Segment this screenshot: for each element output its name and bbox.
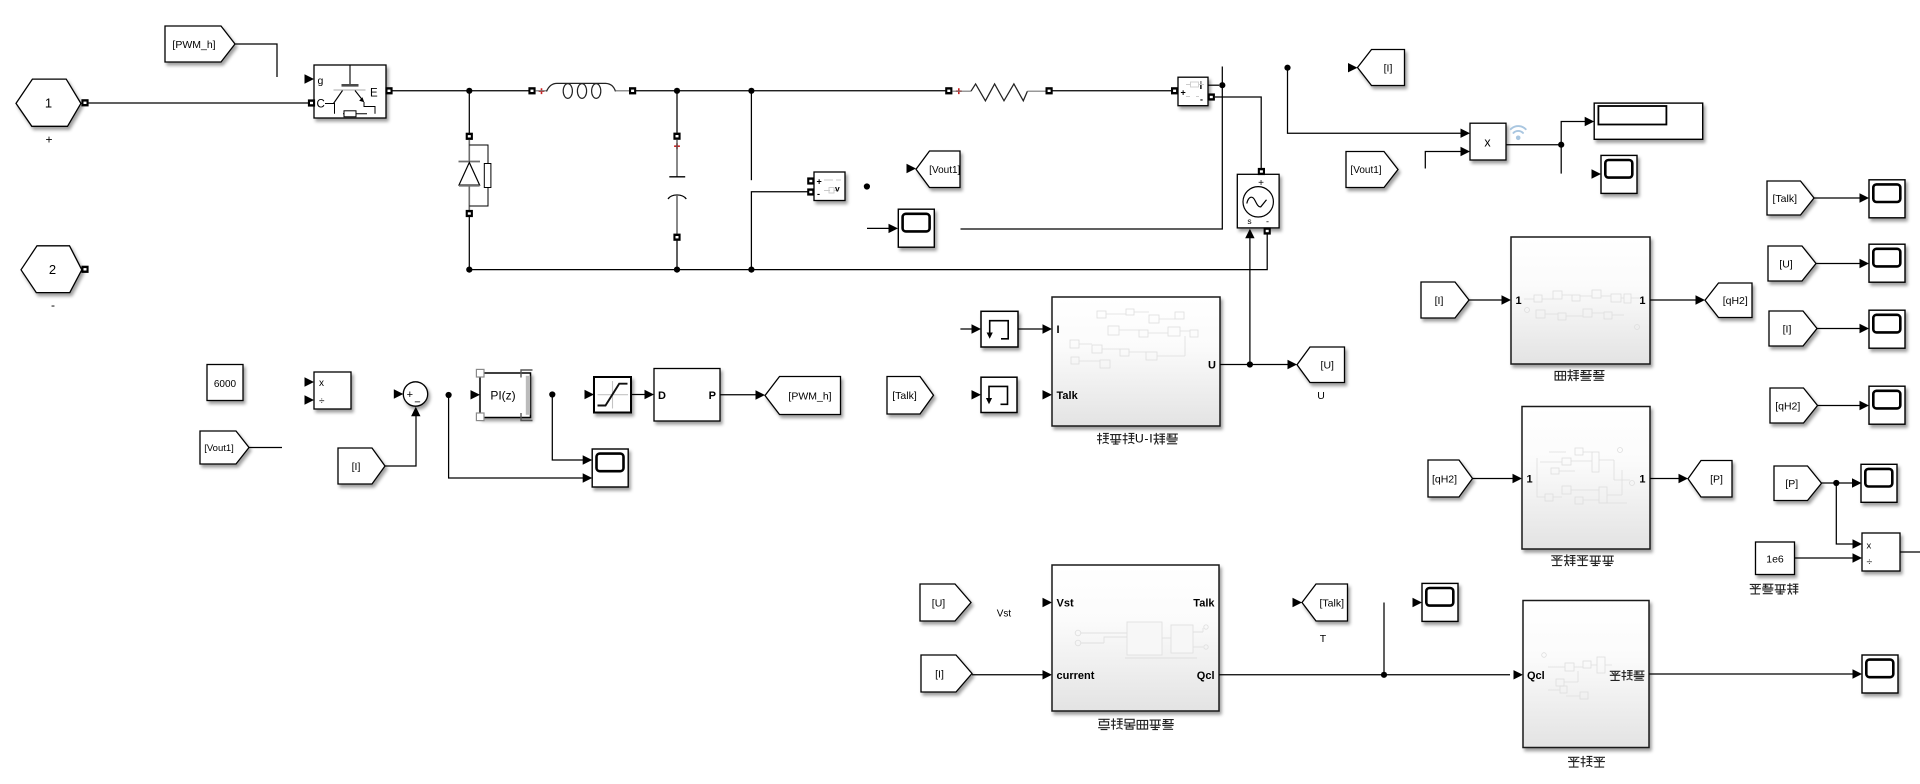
port 2 output pin — [81, 266, 88, 273]
svg-text:+: + — [1181, 88, 1186, 98]
svg-text:Talk: Talk — [1057, 390, 1079, 402]
divide block x / (pressure ratio) — [1862, 533, 1900, 571]
svg-text:1: 1 — [1516, 295, 1522, 307]
bottom rail — [469, 235, 1267, 270]
svg-text:6000: 6000 — [214, 379, 237, 390]
divider input 1 arrow — [1853, 539, 1863, 548]
svg-text:1: 1 — [1639, 295, 1645, 307]
sum input arrow — [394, 389, 404, 398]
svg-text:1: 1 — [1639, 474, 1645, 486]
node Qcl — [1381, 672, 1387, 678]
vm branch wiring — [750, 91, 752, 180]
svg-text:s: s — [1247, 216, 1251, 226]
product input 1 arrow — [1461, 129, 1471, 138]
sum bottom input arrow — [411, 407, 420, 417]
subsystem hydrogen production rate — [1511, 237, 1650, 364]
svg-text:current: current — [1057, 670, 1095, 682]
svg-text:v: v — [835, 184, 840, 194]
rate transition 2 input arrow — [972, 390, 982, 399]
input port 2 (-) — [21, 246, 82, 293]
P goto arrow — [1679, 474, 1689, 483]
wire i-signal long — [961, 67, 1223, 230]
display block — [1594, 103, 1703, 139]
wire [I] to scope — [1817, 328, 1860, 330]
label hydrogen production rate — [1555, 371, 1565, 380]
svg-text:i: i — [1200, 81, 1203, 92]
svg-text:[PWM_h]: [PWM_h] — [172, 39, 215, 51]
from tag [P] (monitor) — [1774, 466, 1822, 501]
display input arrow — [1585, 117, 1595, 126]
scope ctrl input 2 arrow — [583, 473, 593, 482]
svg-text:[PWM_h]: [PWM_h] — [788, 390, 831, 402]
label water thermal management — [1099, 719, 1110, 729]
svg-text:x: x — [1867, 541, 1872, 552]
from tag [Talk] (monitor) — [1767, 181, 1814, 215]
svg-text:[U]: [U] — [932, 597, 946, 609]
label electrolyzer — [1098, 433, 1109, 443]
heat tank Qcl input arrow — [1514, 670, 1524, 679]
svg-text:E: E — [370, 88, 378, 100]
electrolyzer Talk input arrow — [1043, 390, 1053, 399]
label H2 tank pressure — [1552, 556, 1562, 566]
svg-text:[Talk]: [Talk] — [1319, 597, 1344, 609]
svg-text:U: U — [1208, 360, 1216, 372]
h2rate input arrow — [1502, 295, 1512, 304]
svg-text:1e6: 1e6 — [1766, 554, 1784, 566]
svg-text:[qH2]: [qH2] — [1432, 473, 1457, 485]
from tag [U] (Vst) — [920, 584, 971, 621]
scope [I] — [1869, 310, 1905, 348]
source s input arrow — [1245, 229, 1254, 239]
wire i out to node — [1208, 84, 1219, 86]
wire Vout1 to product — [1425, 152, 1460, 169]
scope [P] — [1861, 464, 1897, 502]
controlled voltage source — [1237, 174, 1279, 228]
wire Vout1 stub — [249, 447, 282, 449]
saturation input arrow — [585, 390, 595, 399]
svg-text:[Vout1]: [Vout1] — [929, 165, 960, 176]
scope (product) — [1601, 155, 1637, 193]
PI(z) input arrow — [471, 390, 481, 399]
wire port1 to IGBT C — [89, 102, 310, 104]
water system inner sketch — [1075, 622, 1208, 658]
svg-text:[Vout1]: [Vout1] — [1350, 165, 1381, 176]
wire top rail resistor to current meas — [1052, 90, 1175, 92]
node sum out — [446, 392, 452, 398]
node branch to product — [1284, 65, 1290, 71]
scope (product) input arrow — [1592, 169, 1602, 178]
svg-text:I: I — [1057, 324, 1060, 336]
svg-text:Vst: Vst — [997, 609, 1012, 620]
PWM D input arrow — [645, 390, 655, 399]
gate input arrow — [305, 74, 315, 83]
water Vst input arrow — [1043, 598, 1053, 607]
scope [Talk] — [1869, 180, 1905, 218]
svg-text:[U]: [U] — [1321, 360, 1335, 372]
subsystem electrolyzer U-I curve — [1052, 297, 1220, 426]
node PI out — [549, 391, 555, 397]
node i signal — [1219, 82, 1225, 88]
svg-text:PI(z): PI(z) — [490, 389, 515, 403]
scope [qH2] — [1869, 386, 1905, 424]
saturation block — [594, 377, 631, 413]
svg-text:x: x — [1484, 136, 1491, 150]
svg-text:[I]: [I] — [935, 668, 944, 680]
wire [qH2] to scope — [1818, 405, 1861, 407]
wire divider out — [1900, 551, 1920, 553]
scope (T) input arrow — [1413, 598, 1423, 607]
svg-text:Qcl: Qcl — [1527, 670, 1545, 682]
node diode top — [466, 88, 472, 94]
svg-text:[I]: [I] — [1783, 323, 1792, 335]
wire minus to source top — [1215, 97, 1261, 169]
goto tag [qH2] — [1705, 283, 1752, 318]
node capacitor top — [674, 88, 680, 94]
svg-text:x: x — [319, 378, 324, 389]
inductor L — [528, 83, 636, 98]
node vm branch bottom — [748, 267, 754, 273]
product input 2 arrow — [1461, 147, 1471, 156]
svg-text:[qH2]: [qH2] — [1775, 400, 1800, 412]
sum block +- — [403, 382, 427, 406]
from tag [Talk] (to electrolyzer) — [887, 377, 934, 415]
port 1 output pin — [81, 99, 88, 106]
water current input arrow — [1043, 670, 1053, 679]
scope (heat) — [1862, 655, 1898, 693]
wire top rail inductor to resistor — [636, 90, 947, 92]
goto tag [U] — [1297, 347, 1345, 383]
scope [U] — [1869, 244, 1905, 282]
constant 1e6 — [1756, 542, 1795, 575]
wire sat to pwm — [631, 394, 645, 396]
svg-text:[P]: [P] — [1710, 474, 1723, 486]
voltage measurement block — [814, 172, 845, 201]
svg-text:-: - — [817, 189, 820, 199]
From tag [PWM_h] — [165, 26, 235, 62]
svg-text:[I]: [I] — [1384, 62, 1393, 74]
svg-text:−: − — [414, 396, 420, 408]
capacitor C — [668, 91, 686, 270]
svg-text:1: 1 — [45, 96, 52, 111]
scope (Vout) — [867, 227, 889, 229]
Vout1 goto arrow — [907, 164, 917, 173]
wire top rail E to inductor — [393, 90, 530, 92]
svg-text:C: C — [317, 99, 325, 111]
svg-text:1: 1 — [1527, 474, 1533, 486]
svg-text:+: + — [45, 133, 52, 147]
E output port — [385, 87, 392, 94]
divide input 2 arrow — [305, 395, 315, 404]
PWM generator block — [654, 369, 720, 422]
divider input 2 arrow — [1853, 553, 1863, 562]
rate transition 1 — [960, 328, 972, 330]
goto tag [P] — [1688, 461, 1732, 498]
node vm output — [864, 183, 870, 189]
from tag [U] (monitor) — [1768, 246, 1816, 281]
from tag [Vout1] (feedback) — [200, 431, 249, 464]
node vm branch top — [748, 88, 754, 94]
scope ctrl input 1 arrow — [583, 455, 593, 464]
svg-text:Qcl: Qcl — [1197, 670, 1215, 682]
h2 rate inner sketch — [1524, 290, 1640, 330]
resistor R load — [945, 84, 1052, 101]
divide block x / — [314, 372, 351, 409]
svg-text:T: T — [1320, 633, 1327, 645]
control wire U to source — [1249, 238, 1251, 365]
scope (heat) input arrow — [1853, 669, 1863, 678]
wire I to sum — [385, 416, 416, 467]
Talk goto arrow — [1293, 598, 1303, 607]
subsystem H2 tank pressure — [1522, 407, 1650, 550]
svg-text:-: - — [1266, 217, 1269, 227]
svg-text:2: 2 — [49, 262, 56, 277]
product block x — [1470, 123, 1506, 160]
from tag [I] (current) — [921, 655, 972, 692]
tank pressure inner sketch — [1537, 448, 1635, 505]
svg-text:U: U — [1135, 432, 1144, 446]
subsystem water thermal management — [1052, 565, 1219, 711]
svg-text:Vst: Vst — [1057, 598, 1074, 610]
svg-text:[P]: [P] — [1785, 478, 1798, 490]
from tag [Vout1] — [1346, 152, 1398, 188]
PI(z) controller — [480, 373, 531, 418]
label heat storage tank — [1569, 757, 1579, 767]
svg-text:+: + — [817, 177, 822, 187]
IGBT C port pin — [308, 99, 315, 106]
svg-text:[Vout1]: [Vout1] — [204, 443, 234, 454]
wire product out — [1506, 144, 1561, 146]
constant 6000 — [207, 365, 243, 401]
svg-text:g: g — [318, 75, 324, 87]
from tag [qH2] (monitor) — [1770, 388, 1818, 423]
wire [U] to scope — [1816, 263, 1860, 265]
svg-text:[U]: [U] — [1779, 258, 1793, 270]
node U — [1247, 361, 1253, 367]
I goto arrow — [1348, 63, 1358, 72]
svg-text:I: I — [1149, 432, 1152, 446]
label max pressure — [1750, 584, 1760, 593]
input port 1 (+) — [16, 79, 81, 126]
svg-text:[Talk]: [Talk] — [892, 390, 917, 402]
rate transition 1 input arrow — [972, 324, 982, 333]
current measurement block — [1178, 77, 1208, 106]
wire P to scope and divider — [1822, 482, 1853, 484]
svg-text:P: P — [709, 390, 716, 402]
svg-text:-: - — [1144, 432, 1148, 446]
svg-text:-: - — [51, 298, 55, 312]
electrolyzer inner sketch — [1070, 309, 1198, 368]
from tag [I] (monitor) — [1769, 311, 1817, 346]
from tag [I] (feedback) — [338, 448, 385, 484]
divide input 1 arrow — [305, 377, 315, 386]
diode D with snubber — [459, 91, 491, 270]
wire [Talk] to scope — [1814, 197, 1860, 199]
node product out — [1558, 142, 1564, 148]
wireless logging badge — [1511, 126, 1526, 140]
svg-text:[qH2]: [qH2] — [1723, 295, 1748, 307]
wire heat out — [1649, 673, 1853, 675]
svg-text:[I]: [I] — [1435, 295, 1444, 307]
scope (control) — [592, 449, 628, 487]
node diode bottom — [466, 267, 472, 273]
svg-text:+: + — [407, 389, 413, 401]
svg-text:D: D — [658, 390, 666, 402]
svg-text:÷: ÷ — [1867, 556, 1873, 568]
svg-text:[Talk]: [Talk] — [1772, 193, 1797, 205]
from tag [I] (H2 rate input) — [1421, 282, 1469, 318]
svg-text:[I]: [I] — [352, 461, 361, 473]
svg-text:÷: ÷ — [319, 396, 325, 407]
wire U out — [1220, 364, 1288, 366]
from tag [qH2] (pressure input) — [1428, 460, 1473, 497]
wire Qcl out — [1219, 674, 1510, 676]
port label heat quantity — [1610, 671, 1620, 680]
heat tank inner sketch — [1542, 653, 1612, 699]
subsystem heat storage tank — [1523, 601, 1649, 748]
goto tag [PWM_h] — [765, 377, 841, 415]
node capacitor bottom — [674, 267, 680, 273]
wire pwm out — [720, 394, 756, 396]
wire PWM_h to gate — [236, 44, 278, 77]
U goto arrow — [1288, 360, 1298, 369]
svg-text:U: U — [1317, 390, 1325, 402]
svg-text:Talk: Talk — [1193, 598, 1215, 610]
svg-text:-: - — [1200, 95, 1203, 105]
transistor IGBT block — [314, 65, 386, 118]
qH2 goto arrow — [1696, 295, 1706, 304]
pressure input arrow — [1513, 474, 1523, 483]
scope P input arrow — [1852, 478, 1862, 487]
electrolyzer I input arrow — [1043, 324, 1053, 333]
